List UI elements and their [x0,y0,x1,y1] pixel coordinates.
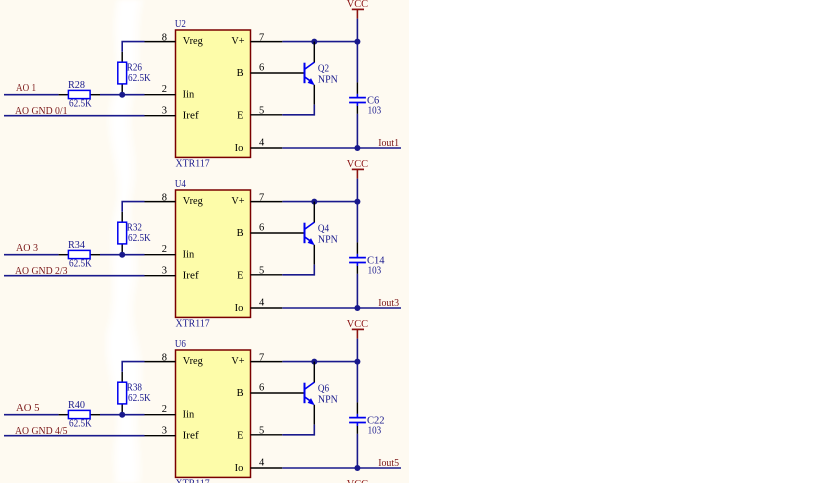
pin 8 [145,32,176,43]
wire resistor to pin2 [100,94,145,96]
svg-text:62.5K: 62.5K [69,259,92,270]
svg-text:U4: U4 [175,179,187,190]
svg-text:VCC: VCC [347,0,368,10]
schematic sheet background [0,0,409,483]
resistor R28 62.5K [59,80,100,110]
svg-text:6: 6 [259,63,264,74]
svg-text:B: B [237,68,244,79]
capacitor C6 103 [349,82,381,116]
svg-text:8: 8 [162,352,167,363]
junction Io [354,145,360,151]
svg-text:AO 5: AO 5 [16,403,40,414]
svg-text:62.5K: 62.5K [128,233,151,244]
junction pin2 [119,252,125,258]
power symbol VCC [347,159,368,179]
svg-text:4: 4 [259,297,265,308]
svg-text:Iout1: Iout1 [378,138,399,149]
svg-text:R28: R28 [68,80,85,91]
wire Io output [282,467,401,469]
svg-text:VCC: VCC [347,319,368,330]
IC U2 XTR117 [175,19,251,170]
wire V+ rail [282,201,357,203]
power symbol VCC [347,0,368,19]
svg-text:R32: R32 [127,222,142,233]
resistor R40 62.5K [59,400,100,430]
svg-text:XTR117: XTR117 [176,319,210,330]
svg-text:Iout5: Iout5 [378,458,399,469]
svg-text:V+: V+ [231,36,244,47]
capacitor C22 103 [349,402,385,436]
svg-text:Iin: Iin [183,409,195,420]
svg-text:3: 3 [162,266,167,277]
svg-text:U2: U2 [175,19,186,30]
transistor Q6 NPN [305,362,339,425]
wire cap to Io [356,114,358,148]
svg-text:62.5K: 62.5K [128,73,151,84]
pin 4 [251,137,283,148]
svg-text:Iref: Iref [183,430,200,441]
svg-text:5: 5 [259,425,264,436]
wire pin8 to resistor [122,202,144,212]
svg-text:B: B [237,388,244,399]
pin 6 [251,223,305,234]
svg-text:U6: U6 [175,339,186,350]
svg-text:62.5K: 62.5K [69,99,92,110]
wire V+ rail [282,361,357,363]
junction pin2 [119,92,125,98]
svg-text:Vreg: Vreg [183,36,204,47]
pin 3 [145,106,176,117]
junction VCC/V+ [354,39,360,45]
svg-text:NPN: NPN [318,394,338,405]
wire pin8 to resistor [122,42,144,52]
wire cap to Io [356,434,358,468]
svg-text:6: 6 [259,383,264,394]
resistor R26 62.5K [118,52,151,95]
wire emitter to pin5 [282,105,314,115]
svg-text:103: 103 [368,265,382,276]
svg-text:V+: V+ [231,356,244,367]
pin 7 [251,352,283,363]
IC U4 XTR117 [175,179,251,330]
svg-text:Iin: Iin [183,89,195,100]
svg-text:R26: R26 [127,62,142,73]
wire AO input [4,414,59,416]
resistor R32 62.5K [118,212,151,255]
IC U6 XTR117 [175,339,251,483]
pin 7 [251,32,283,43]
pin 6 [251,63,305,74]
svg-text:Iref: Iref [183,110,200,121]
junction Io [354,305,360,311]
svg-text:Q6: Q6 [318,384,329,395]
pin 5 [251,425,283,436]
svg-text:VCC: VCC [347,159,368,170]
wire AO input [4,94,59,96]
pin 4 [251,457,283,468]
svg-text:E: E [237,430,243,441]
svg-text:8: 8 [162,192,167,203]
junction collector [311,199,317,205]
pin 5 [251,105,283,116]
svg-text:R40: R40 [68,400,85,411]
wire resistor to pin2 [100,414,145,416]
pin 3 [145,266,176,277]
svg-text:2: 2 [162,244,167,255]
svg-text:XTR117: XTR117 [176,479,210,483]
power symbol VCC [347,319,368,339]
pin 8 [145,352,176,363]
junction collector [311,39,317,45]
pin 2 [145,404,176,415]
svg-text:NPN: NPN [318,74,338,85]
svg-text:7: 7 [259,352,264,363]
svg-text:Iout3: Iout3 [378,298,399,309]
svg-text:Q2: Q2 [318,64,329,75]
svg-text:Io: Io [235,463,244,474]
svg-text:62.5K: 62.5K [128,393,151,404]
transistor Q4 NPN [305,202,339,265]
svg-text:62.5K: 62.5K [69,419,92,430]
transistor Q2 NPN [305,42,339,105]
resistor R34 62.5K [59,240,100,270]
svg-text:2: 2 [162,404,167,415]
wire resistor to pin2 [100,254,145,256]
svg-text:E: E [237,110,243,121]
wire VCC vertical [356,339,358,403]
pin 7 [251,192,283,203]
svg-text:6: 6 [259,223,264,234]
pin 6 [251,383,305,394]
wire Io output [282,147,401,149]
svg-text:3: 3 [162,106,167,117]
capacitor C14 103 [349,242,385,276]
pin 2 [145,84,176,95]
svg-text:VCC: VCC [347,479,368,483]
junction VCC/V+ [354,359,360,365]
svg-text:R38: R38 [127,382,142,393]
pin 8 [145,192,176,203]
pin 2 [145,244,176,255]
white scan artifact band [105,0,144,483]
svg-text:2: 2 [162,84,167,95]
pin 5 [251,265,283,276]
resistor R38 62.5K [118,372,151,415]
junction Io [354,465,360,471]
svg-text:7: 7 [259,32,264,43]
wire VCC vertical [356,179,358,243]
svg-text:103: 103 [368,425,382,436]
svg-text:B: B [237,228,244,239]
wire AO GND [4,275,145,277]
svg-text:NPN: NPN [318,234,338,245]
svg-text:R34: R34 [68,240,86,251]
svg-text:3: 3 [162,426,167,437]
wire emitter to pin5 [282,265,314,275]
wire Io output [282,307,401,309]
wire VCC vertical [356,19,358,83]
wire cap to Io [356,274,358,308]
svg-text:XTR117: XTR117 [176,159,210,170]
svg-text:Iref: Iref [183,270,200,281]
svg-text:4: 4 [259,137,265,148]
svg-text:4: 4 [259,457,265,468]
svg-text:5: 5 [259,105,264,116]
svg-text:AO 1: AO 1 [16,83,36,94]
svg-text:7: 7 [259,192,264,203]
pin 3 [145,426,176,437]
svg-text:8: 8 [162,32,167,43]
svg-text:Q4: Q4 [318,224,330,235]
svg-text:103: 103 [368,105,382,116]
junction collector [311,359,317,365]
svg-text:Iin: Iin [183,249,195,260]
wire AO GND [4,435,145,437]
svg-text:E: E [237,270,243,281]
svg-text:V+: V+ [231,196,244,207]
wire V+ rail [282,41,357,43]
svg-text:Vreg: Vreg [183,356,204,367]
wire AO GND [4,115,145,117]
junction VCC/V+ [354,199,360,205]
wire AO input [4,254,59,256]
svg-text:Vreg: Vreg [183,196,204,207]
svg-text:5: 5 [259,265,264,276]
wire emitter to pin5 [282,425,314,435]
junction pin2 [119,412,125,418]
svg-text:AO 3: AO 3 [16,243,38,254]
wire pin8 to resistor [122,362,144,372]
svg-text:Io: Io [235,143,244,154]
svg-text:Io: Io [235,303,244,314]
pin 4 [251,297,283,308]
